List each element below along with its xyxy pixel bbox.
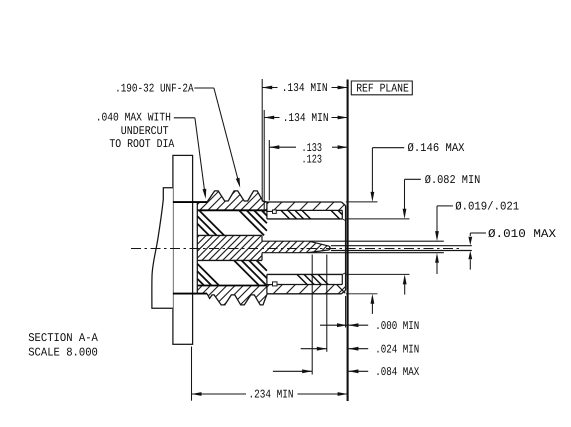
svg-text:Ø.146 MAX: Ø.146 MAX <box>408 141 465 155</box>
svg-text:Ø.082 MIN: Ø.082 MIN <box>425 173 481 187</box>
svg-text:TO ROOT DIA: TO ROOT DIA <box>109 137 175 151</box>
svg-text:SCALE 8.000: SCALE 8.000 <box>28 346 98 360</box>
svg-text:.024 MIN: .024 MIN <box>375 342 419 356</box>
svg-text:.040 MAX WITH: .040 MAX WITH <box>96 110 171 124</box>
svg-text:.134 MIN: .134 MIN <box>282 81 328 95</box>
svg-text:Ø.019/.021: Ø.019/.021 <box>455 199 519 213</box>
svg-text:.084 MAX: .084 MAX <box>375 365 419 379</box>
svg-text:SECTION A-A: SECTION A-A <box>28 331 99 345</box>
svg-text:.000 MIN: .000 MIN <box>375 319 419 333</box>
svg-text:Ø.010 MAX: Ø.010 MAX <box>488 227 556 241</box>
svg-text:REF PLANE: REF PLANE <box>356 81 409 95</box>
svg-text:.190-32 UNF-2A: .190-32 UNF-2A <box>115 81 194 95</box>
svg-text:.123: .123 <box>302 152 323 166</box>
svg-text:UNDERCUT: UNDERCUT <box>121 124 169 138</box>
svg-text:.134 MIN: .134 MIN <box>283 111 329 125</box>
svg-text:.234 MIN: .234 MIN <box>249 388 294 402</box>
